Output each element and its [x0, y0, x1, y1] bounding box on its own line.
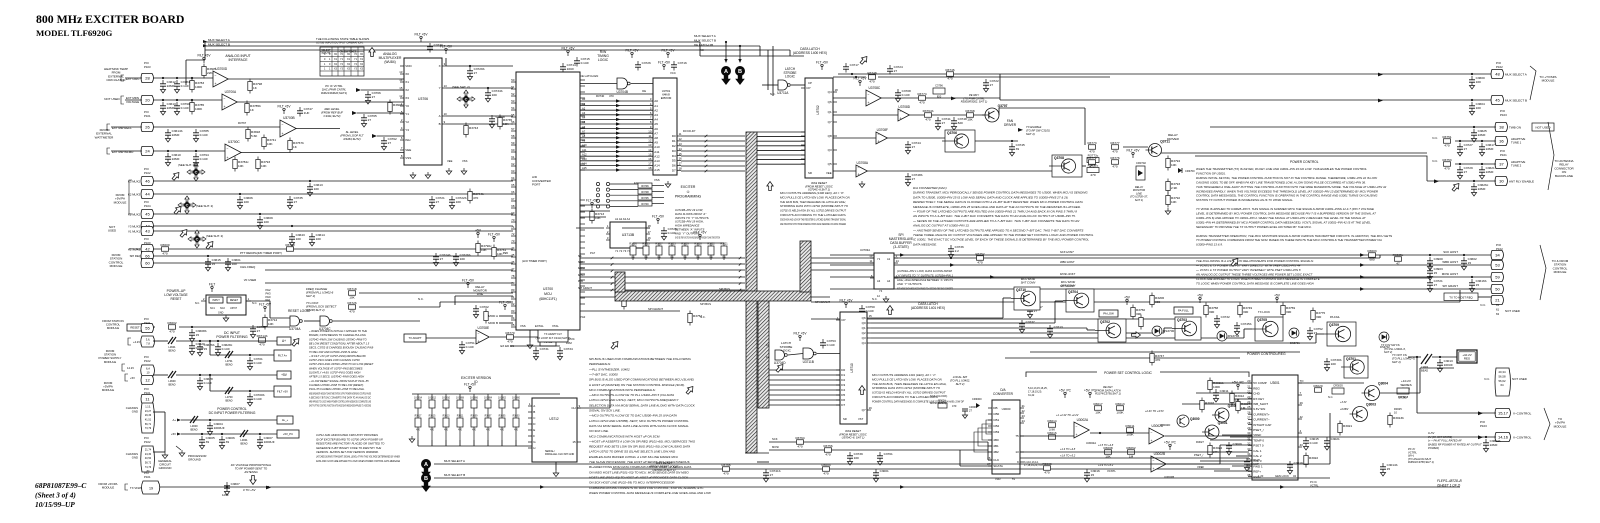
resistor R3714d	[259, 338, 266, 343]
wire MUX SELECT A to P102	[838, 73, 1492, 75]
svg-text:U3710: U3710	[850, 363, 854, 373]
junction	[1011, 140, 1013, 142]
wire latch D5	[757, 154, 805, 156]
power FILT +5V	[699, 237, 701, 240]
svg-text:0.1UF: 0.1UF	[222, 347, 231, 351]
svg-text:53: 53	[511, 99, 515, 103]
svg-text:PROGRAMMING: PROGRAMMING	[675, 195, 702, 199]
wire heatsink stub	[125, 77, 142, 79]
flow arrow	[1230, 256, 1241, 267]
svg-text:18: 18	[679, 167, 683, 171]
svg-text:U3001–PIN 44 (DETERMINED BY MC: U3001–PIN 44 (DETERMINED BY MCU POWER CO…	[1196, 220, 1371, 224]
svg-text:SCK HOST: SCK HOST	[1443, 250, 1458, 254]
svg-text:FILT +5V: FILT +5V	[794, 331, 808, 335]
capacitor C3726c	[455, 253, 457, 257]
svg-text:ANTENNA: ANTENNA	[243, 470, 257, 474]
svg-text:C3411,SHT2): C3411,SHT2)	[324, 114, 341, 118]
svg-text:FILT: FILT	[209, 282, 215, 286]
svg-text:A2: A2	[654, 108, 658, 112]
transistor Q3002	[1215, 408, 1229, 422]
svg-text:68: 68	[511, 204, 515, 208]
svg-text:R3605: R3605	[499, 416, 506, 418]
svg-text:Q6: Q6	[862, 316, 866, 320]
svg-text:13: 13	[679, 142, 683, 146]
svg-text:Q3708: Q3708	[1054, 156, 1064, 160]
svg-text:– IF FILT +5V (AT U3707–PIN2): – IF FILT +5V (AT U3707–PIN2) DROPS BELO…	[308, 354, 366, 358]
wire jumper 0 to u3712	[417, 440, 419, 446]
op-amp U3708C	[866, 90, 881, 106]
resistor R3030	[1044, 466, 1051, 471]
svg-text:BACKPLANE: BACKPLANE	[1555, 174, 1573, 178]
wire mosi host	[830, 276, 1492, 278]
resistor C3794 box	[933, 88, 945, 94]
capacitor C3750	[861, 305, 863, 309]
svg-text:C3900: C3900	[1434, 257, 1443, 261]
resistor R3743	[464, 126, 468, 135]
wire mcu pb0	[580, 204, 610, 206]
svg-text:R3753: R3753	[1442, 158, 1451, 162]
svg-text:A9: A9	[654, 141, 658, 145]
wire buffer out long	[894, 257, 1380, 259]
wire A out	[867, 170, 1052, 172]
wire DE LATCH to latch	[700, 55, 804, 57]
svg-text:BASED RF POWER AT RATED AF OUT: BASED RF POWER AT RATED AF OUTPUT	[1428, 442, 1482, 446]
svg-text:EPROM: EPROM	[661, 96, 672, 100]
svg-text:U3703A: U3703A	[860, 248, 870, 252]
junction	[1099, 432, 1101, 434]
resistor R3773c	[1087, 158, 1099, 163]
capacitor C3729	[1459, 166, 1461, 170]
svg-text:D6: D6	[672, 164, 676, 168]
svg-text:INPUT: INPUT	[212, 299, 220, 302]
capacitor C3713	[1049, 325, 1051, 329]
wire data D3	[681, 150, 745, 152]
svg-text:RESET: RESET	[171, 297, 182, 301]
svg-text:TX POWER CONTROL COMMANDS FROM: TX POWER CONTROL COMMANDS FROM THE SCM. …	[1196, 238, 1382, 242]
svg-text:U3704A: U3704A	[289, 327, 301, 331]
svg-text:C3731: C3731	[540, 347, 549, 351]
svg-text:VDD: VDD	[405, 64, 412, 68]
svg-text:CB3: CB3	[993, 430, 999, 434]
wire mod b	[499, 322, 513, 324]
svg-text:①: ①	[686, 190, 689, 194]
svg-text:78: 78	[511, 274, 515, 278]
wire 1401 D7	[769, 404, 840, 406]
svg-text:41,51: 41,51	[145, 419, 152, 422]
svg-text:CR3000: CR3000	[972, 397, 982, 401]
svg-text:DURING TRANSMIT, MCU PERIODICA: DURING TRANSMIT, MCU PERIODICALLY SENDS …	[913, 191, 1088, 195]
svg-text:80: 80	[511, 288, 515, 292]
svg-text:A4: A4	[654, 118, 658, 122]
wire fan to relay	[999, 107, 1085, 109]
svg-text:22MF: 22MF	[1478, 133, 1486, 137]
svg-text:27: 27	[1464, 147, 1468, 151]
svg-text:U3700D: U3700D	[216, 67, 228, 71]
resistor R3785	[190, 103, 194, 112]
svg-text:R3011: R3011	[1126, 424, 1135, 428]
svg-text:CB2: CB2	[993, 424, 999, 428]
wire u3002d out	[1165, 435, 1252, 437]
svg-text:“A” INPUTS TO “Y” OUTPUTS. U37: “A” INPUTS TO “Y” OUTPUTS. U3703A–PIN 1	[897, 273, 953, 277]
wire data D4	[681, 155, 745, 157]
IC U3703A	[874, 253, 894, 289]
capacitor C3730b	[1326, 358, 1328, 362]
svg-text:R3025: R3025	[1394, 407, 1402, 411]
svg-text:73: 73	[511, 239, 515, 243]
svg-text:27: 27	[474, 71, 478, 75]
svg-text:A: A	[724, 69, 728, 75]
svg-text:U3708F: U3708F	[877, 128, 888, 132]
svg-text:NOT USED: NOT USED	[1536, 126, 1551, 130]
transistor Q3001	[1205, 425, 1219, 439]
svg-text:MOSI (DATA): MOSI (DATA)	[930, 401, 946, 405]
bracket ext mw refl	[107, 124, 110, 130]
wire filt a+ rail	[210, 354, 277, 356]
svg-text:13: 13	[1015, 450, 1019, 454]
wire U3704B out	[631, 83, 653, 85]
ground	[181, 450, 183, 453]
svg-text:N.C.: N.C.	[872, 297, 878, 301]
svg-text:SELECTION DATA VIA MOSI SERIAL: SELECTION DATA VIA MOSI SERIAL DATA LINE…	[589, 403, 696, 407]
svg-text:U3708E: U3708E	[478, 326, 490, 330]
svg-text:CIRCUITS ACCORDING TO THE LATC: CIRCUITS ACCORDING TO THE LATCHED DATA.	[780, 213, 847, 217]
svg-text:R3726: R3726	[629, 243, 637, 246]
svg-text:U3002D: U3002D	[1160, 423, 1170, 427]
svg-text:X: X	[439, 64, 441, 68]
op-amp U3002B	[1151, 456, 1166, 472]
svg-text:1,13,: 1,13,	[145, 406, 151, 409]
wire 1401 Q5 out	[871, 342, 1316, 344]
svg-text:PSET_/: PSET_/	[1194, 453, 1204, 457]
svg-text:R3727: R3727	[655, 243, 663, 246]
svg-text:USED: USED	[108, 229, 117, 233]
wire u3001 feed 6	[1210, 439, 1252, 441]
svg-text:D5: D5	[672, 159, 676, 163]
svg-text:R3014: R3014	[1047, 419, 1056, 423]
connector pin 60	[141, 258, 154, 267]
wire mux row y226	[153, 225, 513, 227]
svg-text:71: 71	[511, 225, 515, 229]
svg-text:27: 27	[368, 118, 372, 122]
wire 1401 Q3 in	[1164, 327, 1172, 329]
wire jumper 4 to u3712	[473, 440, 475, 446]
svg-text:R3726: R3726	[347, 301, 356, 305]
wire reset out	[333, 320, 420, 322]
svg-text:66,71: 66,71	[145, 423, 152, 426]
svg-text:R3728: R3728	[694, 243, 702, 246]
connector pin 38	[1495, 122, 1508, 131]
svg-text:75: 75	[1015, 434, 1019, 438]
svg-text:6,A: 6,A	[146, 367, 150, 371]
svg-text:3,6,: 3,6,	[146, 338, 151, 342]
wire latch D6	[757, 159, 805, 161]
wire vss down	[529, 330, 531, 342]
svg-text:R3600c: R3600c	[393, 103, 404, 107]
svg-text:N.C.: N.C.	[1480, 303, 1486, 307]
op-amp U3700A	[222, 94, 237, 110]
wire jumper 3 to u3712	[459, 440, 461, 446]
resistor R3751	[1444, 139, 1451, 144]
svg-text:XTAL: XTAL	[552, 324, 559, 328]
op-amp U3708F	[876, 132, 887, 144]
svg-text:16: 16	[648, 236, 652, 240]
svg-text:(3–STATE): (3–STATE)	[893, 245, 908, 249]
svg-text:TX LOCK: TX LOCK	[1258, 310, 1270, 314]
capacitor C3643	[291, 233, 293, 237]
svg-text:R3607: R3607	[485, 416, 492, 418]
svg-text:10K: 10K	[1171, 163, 1177, 167]
flow arrow u3703	[887, 306, 893, 315]
svg-text:R3776: R3776	[1110, 156, 1119, 160]
op-amp U3708A	[856, 165, 867, 177]
svg-text:DB: DB	[993, 406, 997, 410]
svg-text:C3745b: C3745b	[1241, 322, 1252, 326]
svg-text:FILT +5V: FILT +5V	[277, 390, 288, 394]
svg-text:P101: P101	[144, 321, 151, 325]
connector pin 45	[1491, 95, 1504, 104]
svg-text:48: 48	[1495, 72, 1500, 77]
power FLT +5V	[264, 309, 266, 312]
svg-text:PA FAIL: PA FAIL	[1330, 315, 1340, 319]
resistor R3012	[1230, 394, 1234, 403]
wire jog host	[1379, 255, 1381, 258]
junction	[1471, 99, 1473, 101]
svg-text:17,18,19,20, N.C.: 17,18,19,20, N.C.	[1024, 464, 1044, 467]
wire buffer out 2	[894, 277, 1430, 279]
svg-text:(SEE SHT. 2): (SEE SHT. 2)	[178, 163, 195, 167]
svg-text:V1 MUX1: V1 MUX1	[128, 229, 140, 233]
power FILT +5V	[859, 83, 861, 86]
svg-text:— SEVEN OF THE LATCHED OUTPUTS: — SEVEN OF THE LATCHED OUTPUTS ARE APPLI…	[912, 219, 1080, 223]
svg-text:MODEL TLF6920G: MODEL TLF6920G	[36, 28, 112, 38]
svg-text:Y3 MUX3: Y3 MUX3	[128, 224, 140, 228]
wire mux select a bottom	[434, 463, 530, 465]
ground	[411, 436, 413, 439]
svg-text:Q3706: Q3706	[947, 131, 957, 135]
capacitor C3725	[663, 227, 665, 231]
connector pin 36	[1495, 136, 1508, 145]
svg-text:+: +	[215, 82, 217, 86]
wire q row bottom rail 2	[1005, 357, 1240, 359]
svg-text:MUX SELECT B: MUX SELECT B	[694, 39, 716, 43]
svg-text:CIRCUITS ACCORDING TO THE LATC: CIRCUITS ACCORDING TO THE LATCHED DATA.	[872, 395, 939, 399]
resistor R3764	[797, 440, 804, 445]
connector not used block	[1495, 368, 1511, 396]
svg-text:PA FULL: PA FULL	[1178, 309, 1189, 313]
svg-text:72: 72	[511, 232, 515, 236]
wire bus drop c	[767, 50, 769, 90]
svg-text:12NF: 12NF	[222, 493, 229, 497]
wire dc voltage bottom	[158, 486, 1460, 488]
svg-text:PORT: PORT	[532, 183, 540, 187]
capacitor C3785	[195, 129, 197, 133]
svg-text:GENERATE 8–BIT BINARY CODE TO: GENERATE 8–BIT BINARY CODE TO IDENTIFY T…	[316, 446, 381, 450]
resistor R3783	[190, 81, 194, 90]
bus SPI arm	[615, 272, 625, 292]
svg-text:U3704C–8, SHT 1): U3704C–8, SHT 1)	[842, 436, 865, 440]
connector pin 26	[141, 122, 154, 131]
capacitor C3717	[845, 63, 847, 67]
resistor network programming	[638, 183, 652, 188]
capacitor C3620	[191, 342, 193, 346]
wire u3001 feed 9	[1232, 465, 1252, 467]
wire q3707 up	[998, 108, 1000, 115]
svg-text:390: 390	[1155, 300, 1160, 304]
svg-text:0.1UF: 0.1UF	[668, 231, 677, 235]
svg-text:R3617: R3617	[415, 416, 422, 418]
svg-text:38: 38	[1499, 125, 1504, 130]
svg-text:D1: D1	[841, 373, 845, 377]
junction	[176, 99, 178, 101]
svg-text:– A LOW RESET SIGNAL FROM SCM: – A LOW RESET SIGNAL FROM SCM AT P101–55	[308, 379, 369, 383]
svg-text:FLT +5V: FLT +5V	[816, 60, 829, 64]
svg-text:SHOT PUTTING CONTROL FUNCTION: SHOT PUTTING CONTROL FUNCTION INTO MODE …	[309, 404, 371, 408]
svg-text:MUX SELECT A: MUX SELECT A	[694, 34, 716, 38]
svg-text:100: 100	[264, 220, 269, 224]
svg-text:R3768: R3768	[965, 109, 974, 113]
svg-text:66: 66	[511, 190, 515, 194]
svg-text:+3.3V: +3.3V	[1340, 401, 1347, 404]
wire gate2 link	[788, 354, 803, 356]
svg-text:R3770: R3770	[505, 331, 514, 335]
svg-text:100: 100	[232, 262, 237, 266]
svg-text:R3767: R3767	[238, 121, 247, 125]
svg-text:VEE: VEE	[826, 171, 832, 175]
svg-text:MCU COMMUNICATIONS WITH HOST u: MCU COMMUNICATIONS WITH HOST uP ON SCM:	[589, 434, 660, 438]
svg-text:R3016: R3016	[1047, 431, 1056, 435]
resistor R3775	[1311, 311, 1315, 320]
svg-text:BE LOW (RESET CONDITION). AFTE: BE LOW (RESET CONDITION). AFTER ABOUT 1.…	[309, 341, 370, 345]
wire mux row y181	[153, 180, 513, 182]
svg-text:A+: A+	[282, 339, 286, 343]
wire SCK	[580, 263, 745, 265]
svg-text:GND: GND	[132, 410, 138, 414]
capacitor C3758	[491, 115, 493, 119]
svg-text:Q4: Q4	[862, 341, 866, 345]
svg-text:R3615: R3615	[429, 416, 436, 418]
svg-text:Q3710: Q3710	[1016, 288, 1026, 292]
svg-text:LEVEL IS DETERMINED BY MCU POW: LEVEL IS DETERMINED BY MCU POWER CONTROL…	[1196, 212, 1376, 216]
svg-text:U3700B: U3700B	[283, 116, 295, 120]
svg-text:HOST LINE (P102–53) TO HOST uP: HOST LINE (P102–53) TO HOST uP. HOST uP …	[589, 475, 689, 479]
capacitor C3729c	[469, 67, 471, 71]
svg-text:MODULE: MODULE	[104, 360, 116, 364]
svg-text:A0: A0	[582, 97, 586, 101]
svg-text:CURRENT–: CURRENT–	[1253, 418, 1270, 422]
svg-text:84: 84	[511, 316, 515, 320]
svg-text:14: 14	[679, 147, 683, 151]
svg-text:U3708A: U3708A	[857, 161, 869, 165]
svg-text:FILT +5V: FILT +5V	[1127, 148, 1141, 152]
svg-text:22MF: 22MF	[1486, 147, 1494, 151]
svg-text:CB0: CB0	[993, 412, 999, 416]
jumper JU3804	[487, 394, 489, 400]
flow arrow c1	[171, 170, 182, 181]
svg-text:THE DATA BUS, THEN RELEASES CE: THE DATA BUS, THEN RELEASES CE LATCH EN …	[872, 382, 947, 386]
svg-text:— ANOTHER SEVEN OF THE LATCHED: — ANOTHER SEVEN OF THE LATCHED OUTPUTS A…	[912, 228, 1083, 232]
svg-text:2.2: 2.2	[955, 249, 960, 253]
wire row3 in	[153, 126, 280, 128]
svg-text:R3013: R3013	[1115, 402, 1124, 406]
svg-text:27: 27	[440, 257, 444, 261]
svg-text:SPI GRANT: SPI GRANT	[1442, 284, 1458, 288]
tag tx adapt flt	[538, 330, 568, 342]
junction	[1029, 301, 1031, 303]
capacitor C3722b	[451, 196, 453, 200]
resistor R3752	[977, 256, 984, 261]
wire spi grant 2	[580, 310, 680, 312]
svg-text:SDATA: SDATA	[993, 464, 1003, 468]
svg-text:GOES HIGH AND LOW OF THE REGIS: GOES HIGH AND LOW OF THE REGISTER IS LAT…	[780, 217, 846, 221]
svg-text:SCK (CLOCK): SCK (CLOCK)	[930, 394, 947, 398]
svg-text:CP: CP	[841, 318, 845, 322]
junction	[1439, 356, 1441, 358]
svg-text:470: 470	[609, 94, 614, 98]
tag tx adapt	[404, 334, 426, 342]
arrow host line	[900, 253, 905, 256]
svg-text:(ADDRESS 1401 HEX): (ADDRESS 1401 HEX)	[911, 306, 945, 310]
jumper JU3800	[515, 394, 517, 400]
svg-text:100: 100	[1476, 80, 1481, 84]
wire data D1	[681, 140, 745, 142]
wire relay out	[1161, 152, 1427, 154]
svg-text:39: 39	[226, 440, 230, 444]
svg-text:27: 27	[1464, 170, 1468, 174]
resistor spi pull	[622, 298, 626, 307]
wire twb on	[1210, 126, 1496, 128]
svg-text:−: −	[878, 133, 880, 137]
IC U3713B	[610, 222, 646, 248]
tag pa low	[1099, 310, 1118, 317]
wire 1401 Q3 jog	[1163, 328, 1165, 333]
svg-text:+: +	[478, 339, 480, 343]
svg-text:K3 MUX2: K3 MUX2	[128, 179, 140, 183]
svg-text:U3001–PIN 6) AND APPLIED TO U3: U3001–PIN 6) AND APPLIED TO U3001–PIN 2.…	[1196, 216, 1366, 220]
svg-text:MODULE: MODULE	[1542, 79, 1555, 83]
tag input	[209, 297, 223, 303]
wire mux риз	[1329, 413, 1331, 464]
svg-text:VST: VST	[858, 417, 864, 421]
svg-text:POWER): POWER)	[1428, 446, 1439, 450]
capacitor C3608c	[191, 329, 193, 333]
resistor R3793	[256, 160, 260, 169]
svg-text:+5V: +5V	[475, 228, 482, 232]
svg-text:U3707–PIN1 AND U3704C–PIN8 TO: U3707–PIN1 AND U3704C–PIN8 TO GO LOW (RE…	[309, 362, 374, 366]
wire u3001 feed 7	[1236, 455, 1252, 457]
resistor R3727	[656, 246, 662, 255]
svg-text:0.1UF: 0.1UF	[254, 361, 263, 365]
svg-text:—MCU OUTPUTS A LOW CE TO DAC U: —MCU OUTPUTS A LOW CE TO DAC U3000–PIN 2…	[588, 414, 677, 418]
capacitor C3741	[937, 117, 939, 121]
wire reset tag stub	[143, 326, 155, 328]
resistor R3611	[459, 408, 461, 418]
svg-text:42: 42	[1300, 415, 1304, 419]
resistor R3758	[1204, 306, 1208, 315]
svg-text:26: 26	[145, 125, 150, 130]
connector pin 20	[141, 95, 154, 104]
svg-text:FLT +5V: FLT +5V	[488, 232, 501, 236]
power FLT +5V	[657, 221, 659, 224]
svg-text:— FOUR OF THE LATCHED OUTPUTS: — FOUR OF THE LATCHED OUTPUTS ARE ROUTED…	[912, 210, 1077, 214]
wire	[270, 317, 290, 319]
wire chg freq	[265, 269, 513, 271]
resistor R3730	[287, 247, 294, 252]
svg-text:TX ADAPT: TX ADAPT	[409, 336, 422, 340]
svg-text:CE LATCH EN: CE LATCH EN	[580, 74, 598, 78]
svg-text:R3751: R3751	[1442, 135, 1451, 139]
arrow ref level	[352, 111, 357, 115]
wire	[960, 465, 992, 467]
